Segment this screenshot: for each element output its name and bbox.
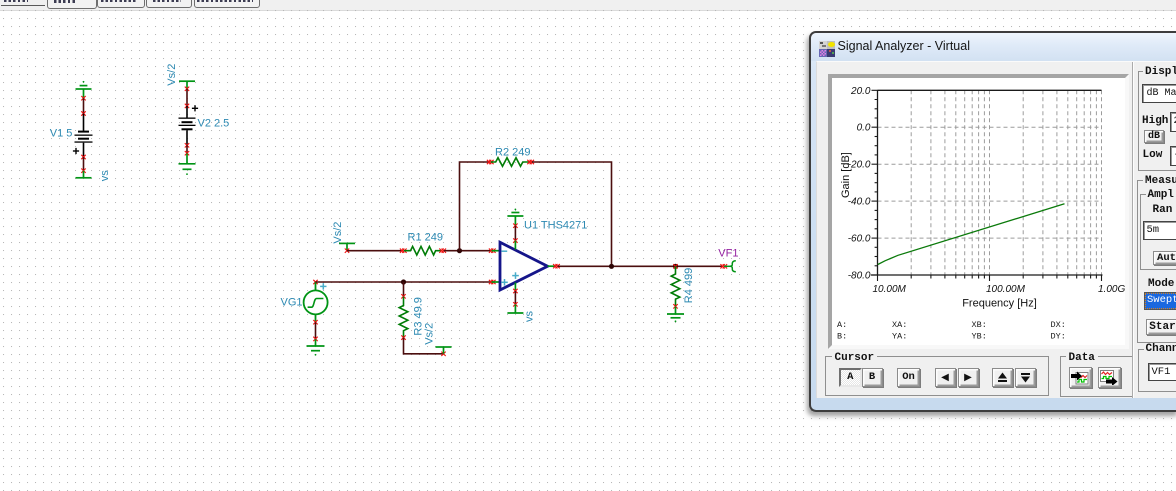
plus sign VG1 (cyan) xyxy=(320,283,326,289)
ground (below R4) xyxy=(667,307,684,323)
svg-text:R2 249: R2 249 xyxy=(495,146,530,158)
svg-text:R4 499: R4 499 xyxy=(683,268,695,303)
wire V1 bottom xyxy=(83,157,85,171)
title bar xyxy=(811,33,1176,61)
svg-text:DX:: DX: xyxy=(1051,319,1066,329)
client area xyxy=(816,61,1176,398)
wire R1 to op-amp inverting input xyxy=(444,250,491,252)
ground (flipped, above op-amp) xyxy=(507,209,523,226)
wire R2 right down to output xyxy=(532,162,612,266)
op-amp inverting input stub xyxy=(492,250,501,252)
plus sign V2 xyxy=(192,105,198,111)
signal analyzer window xyxy=(809,31,1176,412)
svg-text:VG1: VG1 xyxy=(281,297,303,309)
data group xyxy=(1060,356,1134,397)
x labels xyxy=(873,283,1126,294)
op-amp V- pin stub xyxy=(514,283,516,292)
toolbar tab strip xyxy=(0,0,1176,11)
svg-text:Frequency [Hz]: Frequency [Hz] xyxy=(962,297,1037,309)
svg-text:vs: vs xyxy=(99,170,111,182)
svg-text:A:: A: xyxy=(837,319,847,329)
node junction VG1/R3 xyxy=(401,279,406,284)
svg-text:vs: vs xyxy=(524,311,536,323)
wire R3 to Vs/2 terminal xyxy=(404,338,444,354)
svg-text:R1 249: R1 249 xyxy=(408,231,443,243)
ground (bottom of V2) xyxy=(179,153,196,175)
node junction R1/R2 xyxy=(457,248,462,253)
pin X VG1 ground xyxy=(313,337,317,341)
plot svg xyxy=(832,79,1125,346)
right panel divider xyxy=(1132,62,1133,398)
svg-text:VF1: VF1 xyxy=(718,247,738,259)
screen bezel xyxy=(828,74,1130,349)
svg-text:Gain [dB]: Gain [dB] xyxy=(840,152,852,198)
resistor R1 xyxy=(404,246,443,255)
pin X V2 bottom lead xyxy=(185,143,189,147)
pin X op-amp inverting input (doubled) xyxy=(489,249,496,253)
pin X R2 left (doubled) xyxy=(487,160,494,164)
resistor R2 xyxy=(491,158,531,167)
pin X vs terminal (op-amp supply) xyxy=(513,302,517,306)
node Vs/2 terminal (T-bar, below R3) xyxy=(436,347,452,354)
pin X VG1 bottom xyxy=(313,320,317,324)
svg-text:V2 2.5: V2 2.5 xyxy=(198,118,230,130)
wire junction to R3 xyxy=(403,282,405,296)
wire V1 top xyxy=(83,98,85,113)
tab 5 xyxy=(194,0,260,8)
pin X V1 bottom lead xyxy=(81,155,85,159)
title text xyxy=(838,39,970,53)
svg-text:-60.0: -60.0 xyxy=(848,233,871,244)
svg-text:YA:: YA: xyxy=(892,331,907,341)
node Vs/2 terminal (T-bar, top of V2) xyxy=(179,81,195,88)
pin X Vs/2 terminal xyxy=(345,249,349,253)
svg-text:U1 THS4271: U1 THS4271 xyxy=(524,219,587,231)
tab 2 xyxy=(47,0,97,9)
wire V2 bottom xyxy=(186,145,188,153)
op-amp plus symbol (supply) xyxy=(512,272,519,279)
tab 1 (open) xyxy=(1,5,45,6)
svg-text:Vs/2: Vs/2 xyxy=(166,64,178,86)
pin X op-amp output (doubled) xyxy=(553,264,560,268)
pin X R3 top xyxy=(401,294,405,298)
pin X vs jumper xyxy=(81,169,85,173)
node junction R4/output xyxy=(673,264,678,269)
pin X V2 ground xyxy=(185,151,189,155)
ticks xyxy=(872,90,1102,281)
pin X Vs/2 bottom terminal xyxy=(441,352,445,356)
pin X V1 + terminal lead top xyxy=(81,111,85,115)
svg-text:-80.0: -80.0 xyxy=(848,270,871,281)
v gridlines xyxy=(911,90,1101,275)
pin X op-amp top ground xyxy=(513,224,517,228)
wire V2 top xyxy=(186,89,188,106)
pin X op-amp non-inverting input (doubled) xyxy=(489,280,496,284)
node junction R2/output xyxy=(609,264,614,269)
pin X op-amp V- pin xyxy=(513,289,517,293)
pin X R2 right (doubled) xyxy=(527,160,534,164)
output pin VF1 xyxy=(724,261,736,272)
wire output to VF1 xyxy=(558,265,722,267)
svg-text:Vs/2: Vs/2 xyxy=(423,323,435,345)
svg-text:YB:: YB: xyxy=(972,331,987,341)
op-amp minus symbol xyxy=(501,250,507,252)
svg-text:Vs/2: Vs/2 xyxy=(332,222,344,244)
pin X V2 top jumper xyxy=(185,87,189,91)
axes xyxy=(871,90,1103,275)
pin X R1 right (doubled) xyxy=(439,249,446,253)
generator VG1 xyxy=(304,282,328,322)
svg-text:1.00G: 1.00G xyxy=(1098,283,1125,294)
svg-text:20.0: 20.0 xyxy=(850,85,871,96)
svg-text:XA:: XA: xyxy=(892,319,907,329)
pin X V1 top jumper xyxy=(81,96,85,100)
plus sign V1 xyxy=(73,148,79,154)
pin X R4 top xyxy=(673,264,677,268)
resistor R3 xyxy=(399,297,408,338)
op-amp U1 triangle xyxy=(500,242,548,290)
wire op-amp negative supply xyxy=(514,291,516,304)
node Vs/2 terminal (T-bar at R1 input) xyxy=(339,243,355,250)
y labels xyxy=(848,85,871,281)
pin X VF1 (doubled) xyxy=(720,264,727,268)
battery V2 xyxy=(179,106,196,145)
op-amp non-inverting input stub xyxy=(492,281,501,283)
svg-text:100.00M: 100.00M xyxy=(986,283,1026,294)
svg-text:10.00M: 10.00M xyxy=(873,283,907,294)
op-amp output stub xyxy=(548,265,556,267)
Measurement group xyxy=(1137,180,1176,343)
ground (flipped, top of V1) xyxy=(76,81,92,98)
cursor group xyxy=(825,356,1049,396)
wire VG1 to ground xyxy=(315,322,317,339)
pin X R1 left (doubled) xyxy=(400,249,407,253)
curve xyxy=(878,203,1065,264)
battery V1 xyxy=(75,114,93,158)
cursor readouts xyxy=(837,319,1066,341)
svg-text:DY:: DY: xyxy=(1051,331,1066,341)
wire op-amp positive supply xyxy=(514,226,516,241)
Display group xyxy=(1138,71,1176,171)
node vs terminal (T-bar below op-amp) xyxy=(507,304,523,313)
pin X R4 bottom xyxy=(673,304,677,308)
ground (below VG1) xyxy=(307,339,325,356)
Swept listbox xyxy=(1144,292,1176,311)
node vs terminal (T-bar) xyxy=(76,171,92,178)
Amplitude subgroup xyxy=(1140,194,1176,270)
op-amp V+ pin stub xyxy=(514,241,516,250)
pin X R3 bottom xyxy=(401,335,405,339)
window icon xyxy=(819,41,835,57)
pin X V2 + lead xyxy=(185,104,189,108)
pin X VG1 top xyxy=(313,280,317,284)
op-amp plus symbol (input) xyxy=(501,279,508,286)
resistor R4 xyxy=(671,266,680,306)
pin X op-amp V+ pin xyxy=(513,238,517,242)
svg-text:V1 5: V1 5 xyxy=(50,128,73,140)
tab 4 xyxy=(146,0,192,8)
wire junction up to R2 xyxy=(460,162,490,251)
wire VG1 + to op-amp xyxy=(316,281,491,283)
svg-text:B:: B: xyxy=(837,331,847,341)
svg-text:0.0: 0.0 xyxy=(857,122,871,133)
tab 3 xyxy=(97,0,145,8)
svg-text:XB:: XB: xyxy=(972,319,987,329)
Channels group xyxy=(1138,349,1176,392)
h gridlines xyxy=(878,127,1103,238)
wire Vs/2 terminal to R1 xyxy=(347,250,403,252)
